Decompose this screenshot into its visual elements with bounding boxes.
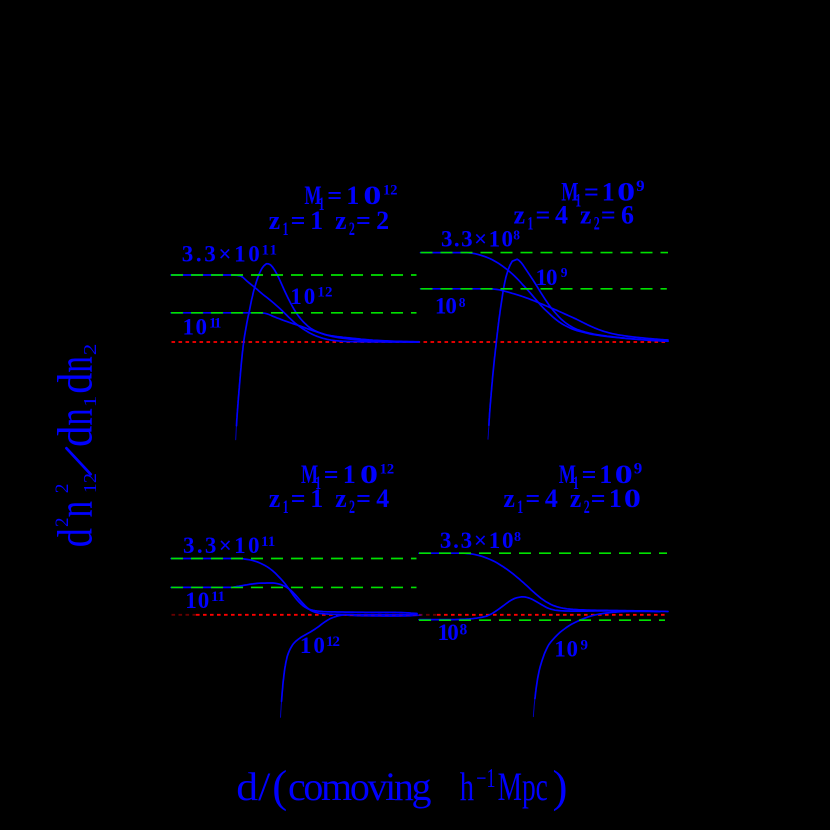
green dashed asymptote 1e8 top-right — [421, 288, 667, 290]
curve 1e8 bottom-right panel — [419, 597, 660, 620]
svg-text:6: 6 — [621, 201, 634, 230]
svg-text:4: 4 — [555, 201, 568, 230]
svg-text:d: d — [46, 373, 102, 394]
svg-text:10: 10 — [185, 588, 209, 613]
green dashed asymptote 1e8 bottom-right — [419, 619, 665, 621]
svg-text:1: 1 — [283, 497, 289, 518]
svg-text:=: = — [356, 484, 371, 513]
svg-text:n: n — [46, 356, 102, 372]
svg-text:8: 8 — [514, 530, 521, 545]
svg-text:Mpc: Mpc — [498, 764, 548, 809]
svg-text:1: 1 — [527, 213, 533, 234]
svg-text:1: 1 — [517, 497, 523, 518]
curve 1e9 top-right panel faint tip — [487, 425, 490, 439]
svg-text:n: n — [46, 408, 102, 425]
y-axis label fraction slash — [66, 448, 90, 474]
curve 3.3e11 top-left panel — [171, 275, 419, 342]
svg-text:z: z — [269, 484, 281, 513]
curve 1e9 top-right panel — [489, 259, 668, 425]
curve 1e11 top-left panel — [171, 313, 419, 342]
svg-text:11: 11 — [211, 589, 225, 605]
svg-text:2: 2 — [376, 206, 389, 235]
svg-text:9: 9 — [634, 461, 643, 478]
svg-text:d/: d/ — [236, 764, 271, 809]
svg-text:d: d — [46, 426, 102, 447]
svg-text:9: 9 — [581, 638, 589, 654]
green dashed asymptote 3.3e8 bottom-right — [419, 552, 667, 554]
svg-text:3.3×10: 3.3×10 — [441, 227, 513, 252]
svg-text:4: 4 — [545, 484, 558, 513]
svg-text:12: 12 — [380, 462, 395, 478]
green dashed asymptote 1e11 top-left — [171, 312, 417, 314]
svg-text:8: 8 — [460, 622, 468, 639]
svg-text:n: n — [46, 501, 102, 517]
curve 3.3e8 top-right panel — [421, 253, 669, 342]
svg-text:1: 1 — [80, 396, 100, 408]
svg-text:z: z — [514, 201, 526, 230]
svg-text:12: 12 — [80, 473, 100, 493]
svg-text:11: 11 — [261, 534, 275, 550]
svg-text:−1: −1 — [476, 763, 495, 793]
svg-text:11: 11 — [209, 316, 222, 332]
svg-text:11: 11 — [262, 243, 278, 259]
curve 1e9 bottom-right panel — [535, 611, 660, 698]
svg-text:1: 1 — [283, 219, 289, 240]
svg-text:(: ( — [272, 762, 287, 812]
green dashed asymptote 3.3e11 bottom-left — [171, 558, 417, 560]
svg-text:1: 1 — [609, 484, 622, 513]
svg-text:12: 12 — [326, 634, 340, 650]
curve 3.3e11 bottom-left panel — [171, 559, 417, 614]
curve 1e12 top-left panel faint tip — [235, 426, 238, 440]
red dotted asymptote line top row — [172, 341, 669, 343]
curve 1e12 top-left panel — [237, 264, 420, 426]
svg-text:2: 2 — [52, 517, 73, 527]
svg-text:2: 2 — [52, 484, 73, 494]
svg-text:=: = — [356, 206, 371, 235]
svg-text:10: 10 — [536, 265, 558, 290]
svg-text:=: = — [291, 206, 306, 235]
svg-text:12: 12 — [383, 183, 398, 199]
svg-text:0: 0 — [624, 484, 641, 513]
svg-text:2: 2 — [584, 497, 590, 518]
svg-text:1: 1 — [310, 484, 323, 513]
svg-text:10: 10 — [554, 637, 578, 662]
svg-text:h: h — [460, 764, 474, 809]
svg-text:d: d — [46, 528, 102, 547]
curve 3.3e8 bottom-right panel — [419, 553, 668, 611]
svg-text:12: 12 — [317, 285, 332, 301]
red dotted asymptote line bottom row dim start right panel — [419, 614, 437, 616]
svg-text:=: = — [291, 484, 306, 513]
curve 1e12 bottom-left panel tail under red line — [344, 615, 421, 616]
svg-text:2: 2 — [349, 219, 355, 240]
svg-text:10: 10 — [183, 315, 208, 340]
svg-text:z: z — [335, 484, 347, 513]
svg-text:10: 10 — [435, 294, 457, 319]
red dotted asymptote line bottom row right panel — [437, 614, 666, 616]
svg-text:=: = — [525, 484, 540, 513]
svg-text:z: z — [580, 201, 592, 230]
svg-text:8: 8 — [459, 295, 466, 310]
curve 1e12 bottom-left panel — [282, 615, 345, 701]
svg-text:z: z — [570, 484, 582, 513]
curve 1e12 bottom-left panel faint tip — [281, 699, 282, 717]
green dashed asymptote 3.3e11 top-left — [171, 274, 417, 276]
svg-text:=: = — [601, 201, 616, 230]
svg-text:4: 4 — [376, 484, 389, 513]
svg-text:z: z — [269, 206, 281, 235]
svg-text:=: = — [591, 484, 606, 513]
svg-text:9: 9 — [636, 178, 645, 195]
green dashed asymptote 1e11 bottom-left — [171, 586, 417, 588]
curve 1e9 bottom-right panel faint tip — [533, 699, 535, 717]
svg-text:z: z — [503, 484, 515, 513]
svg-text:2: 2 — [80, 344, 100, 356]
svg-text:1: 1 — [310, 206, 323, 235]
svg-text:2: 2 — [594, 213, 600, 234]
green dashed asymptote 3.3e8 top-right — [421, 252, 669, 254]
svg-text:=: = — [536, 201, 551, 230]
curve 1e8 top-right panel — [421, 289, 669, 340]
svg-text:8: 8 — [513, 228, 520, 243]
svg-text:9: 9 — [561, 265, 568, 280]
svg-text:3.3×10: 3.3×10 — [183, 533, 260, 558]
svg-text:3.3×10: 3.3×10 — [440, 528, 514, 553]
svg-text:10: 10 — [438, 620, 459, 645]
red dotted asymptote line bottom row left panel — [196, 614, 417, 616]
svg-text:): ) — [553, 762, 568, 812]
red dotted asymptote line bottom row, dim left segment — [172, 614, 197, 616]
svg-text:2: 2 — [349, 497, 355, 518]
curve 1e11 bottom-left panel — [171, 583, 417, 615]
svg-text:comoving: comoving — [288, 764, 432, 809]
y-axis label d^2 n^2_12 / dn_1 dn_2 — [46, 344, 102, 548]
svg-text:z: z — [335, 206, 347, 235]
